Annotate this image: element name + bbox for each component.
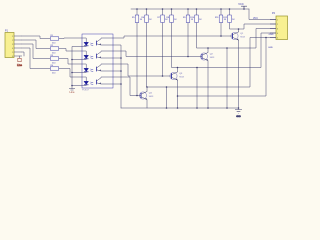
power port GND (rail) (235, 110, 242, 119)
connector P1 (5, 30, 22, 58)
wire VCC rail (131, 8, 249, 10)
wire opto ch4 collector to Q4 base (113, 77, 139, 96)
svg-text:VCC: VCC (238, 2, 244, 6)
junction at (137,95.5) (136, 95, 138, 97)
wire R1 out to opto ch1 anode (59, 37, 82, 40)
wire opto ch2 emitter to GND bus (113, 57, 121, 59)
resistor R1 (50, 35, 58, 45)
junction at (166.5,87) (166, 86, 168, 88)
junction at (197,108) (196, 107, 198, 109)
connector P2 (270, 12, 288, 40)
junction at (166.5,108) (166, 107, 168, 109)
wire Q1 emitter to rail (238, 41, 240, 109)
wire Q2 output row to riser (208, 29, 276, 49)
svg-text:Line: Line (69, 90, 75, 94)
wire opto ch2 collector to Q2 base (113, 51, 200, 57)
wire opto ch3 emitter to GND bus (113, 70, 121, 72)
junction at (121,84) (120, 83, 122, 85)
svg-text:PC847: PC847 (82, 90, 89, 92)
wire Q3 collector (177, 68, 179, 72)
transistor Q2 (200, 52, 215, 61)
wire rail to R11 (220, 9, 222, 15)
wire P2 GND pin return (178, 38, 267, 97)
wire R3 out to opto ch3 anode (59, 59, 82, 65)
opto channel 4 phototransistor (97, 77, 114, 84)
wire rail to R7 (162, 9, 164, 15)
junction at (227,108) (226, 107, 228, 109)
wire GND rail (121, 108, 239, 110)
opto channel 3 phototransistor (97, 64, 114, 71)
wire P1 pin3 to R3 (22, 44, 50, 59)
wire output 4 pulldown vertical (166, 87, 168, 108)
junction at (208,48) (207, 47, 209, 49)
wire opto ch3 collector to Q3 base (113, 64, 170, 76)
resistor R12 (223, 15, 235, 23)
junction at (72,85.5) (71, 85, 73, 87)
wire rail to R5 (136, 9, 138, 15)
wire base pullup to Q1 base row (220, 23, 222, 37)
wire R2 out to opto ch2 anode (59, 49, 82, 52)
resistor R5 (132, 15, 143, 23)
junction at (121,58) (120, 57, 122, 59)
power port VCC (238, 2, 247, 9)
opto channel 1 phototransistor (97, 38, 114, 45)
svg-text:Line: Line (17, 63, 23, 67)
resistor R8 (166, 15, 177, 23)
wire opto ch4 emitter to GND bus (113, 83, 121, 85)
net label GND (P2 ground pin) (268, 34, 274, 49)
wire output pullup to Q1 output row (230, 23, 239, 30)
wire base pullup to Q2 base row (187, 23, 189, 57)
junction at (147,87) (146, 86, 148, 88)
junction at (72,59.5) (71, 59, 73, 61)
junction at (238.5,29) (238, 28, 240, 30)
wire rail to R6 (146, 9, 148, 15)
svg-text:GND: GND (269, 34, 274, 36)
junction at (177.5,96) (177, 95, 179, 97)
junction at (177.5,67.5) (177, 67, 179, 69)
junction at (244,9) (243, 8, 245, 10)
svg-text:GND: GND (268, 47, 273, 49)
resistor R3 (50, 55, 58, 65)
wire rail to R10 (196, 9, 198, 15)
junction at (137,9) (136, 8, 138, 10)
junction at (266,37.5) (265, 37, 267, 39)
wire Q1 collector (238, 29, 240, 32)
wire rail to R12 (229, 9, 231, 15)
wire opto ch1 emitter to GND bus (113, 45, 121, 108)
wire output 2 pulldown vertical (226, 48, 228, 108)
resistor R4 (50, 65, 58, 75)
junction at (221,36) (220, 35, 222, 37)
junction at (121,71) (120, 70, 122, 72)
junction at (197,67.5) (196, 67, 198, 69)
wire Q2 collector (207, 48, 209, 52)
transistor Q4 (139, 91, 154, 100)
resistor R11 (215, 15, 227, 23)
wire P1 pin1 to R1 (22, 36, 50, 39)
opto channel 1 LED (82, 38, 93, 47)
junction at (188,9) (187, 8, 189, 10)
wire output pullup to Q3 output row (172, 23, 178, 68)
wire Q4 emitter to rail (146, 100, 148, 108)
junction at (208,108) (207, 107, 209, 109)
wire opto ch4 cathode to Line bus (72, 85, 82, 87)
wire base pullup to Q3 base row (162, 23, 164, 77)
wire output pullup to Q4 output row (146, 23, 149, 88)
junction at (221,9) (220, 8, 222, 10)
wire opto ch2 cathode to Line bus (72, 59, 82, 61)
junction at (238.5,108) (238, 107, 240, 109)
opto channel 4 LED (82, 77, 93, 86)
wire opto ch1 collector to Q1 base (113, 36, 231, 38)
transistor Q3 (170, 72, 185, 81)
junction at (171.5,9) (171, 8, 173, 10)
wire output pullup to Q2 output row (197, 23, 209, 49)
wire P1 pin4 to R4 (22, 48, 50, 69)
junction at (72,72.5) (71, 72, 73, 74)
wire P1 pin2 to R2 (22, 40, 50, 49)
junction at (177.5,108) (177, 107, 179, 109)
junction at (196.5,9) (196, 8, 198, 10)
wire P1 pins5-6 to Line port (20, 52, 25, 58)
wire output 3 pulldown vertical (196, 68, 198, 109)
wire opto ch3 cathode to Line bus (72, 72, 82, 74)
wire base pullup to Q4 base row (136, 23, 138, 96)
wire Q4 collector (146, 87, 148, 91)
wire Q3 output row to riser (178, 33, 277, 68)
svg-text:VCC: VCC (253, 18, 258, 20)
wire Q4 output row to riser (147, 38, 276, 88)
wire opto ch1 cathode to Line bus (72, 47, 82, 89)
opto channel 3 LED (82, 64, 93, 73)
junction at (146.5,9) (146, 8, 148, 10)
resistor R10 (190, 15, 202, 23)
resistor R9 (183, 15, 194, 23)
optocoupler U1 PC847 (82, 34, 113, 92)
opto channel 2 phototransistor (97, 51, 114, 58)
junction at (227,48) (226, 47, 228, 49)
transistor Q1 (231, 32, 246, 41)
resistor R2 (50, 45, 58, 55)
wire Q2 emitter to rail (207, 61, 209, 108)
svg-text:GND: GND (236, 116, 241, 118)
wire rail to R9 (187, 9, 189, 15)
junction at (162.5,76) (162, 75, 164, 77)
wire R4 out to opto ch4 anode (59, 69, 82, 78)
junction at (188,56.5) (187, 56, 189, 58)
power port Line (cathode bus) (69, 89, 75, 94)
power port Line (input common) (17, 58, 23, 67)
junction at (162.5,9) (162, 8, 164, 10)
junction at (229.5,9) (229, 8, 231, 10)
opto channel 2 LED (82, 51, 93, 60)
wire Q1 output row to riser (239, 24, 277, 29)
resistor R7 (157, 15, 168, 23)
resistor R6 (141, 15, 152, 23)
wire VCC rail to P2 pin1 (249, 9, 276, 20)
wire Q3 emitter to rail (177, 81, 179, 109)
wire rail to R8 (171, 9, 173, 15)
